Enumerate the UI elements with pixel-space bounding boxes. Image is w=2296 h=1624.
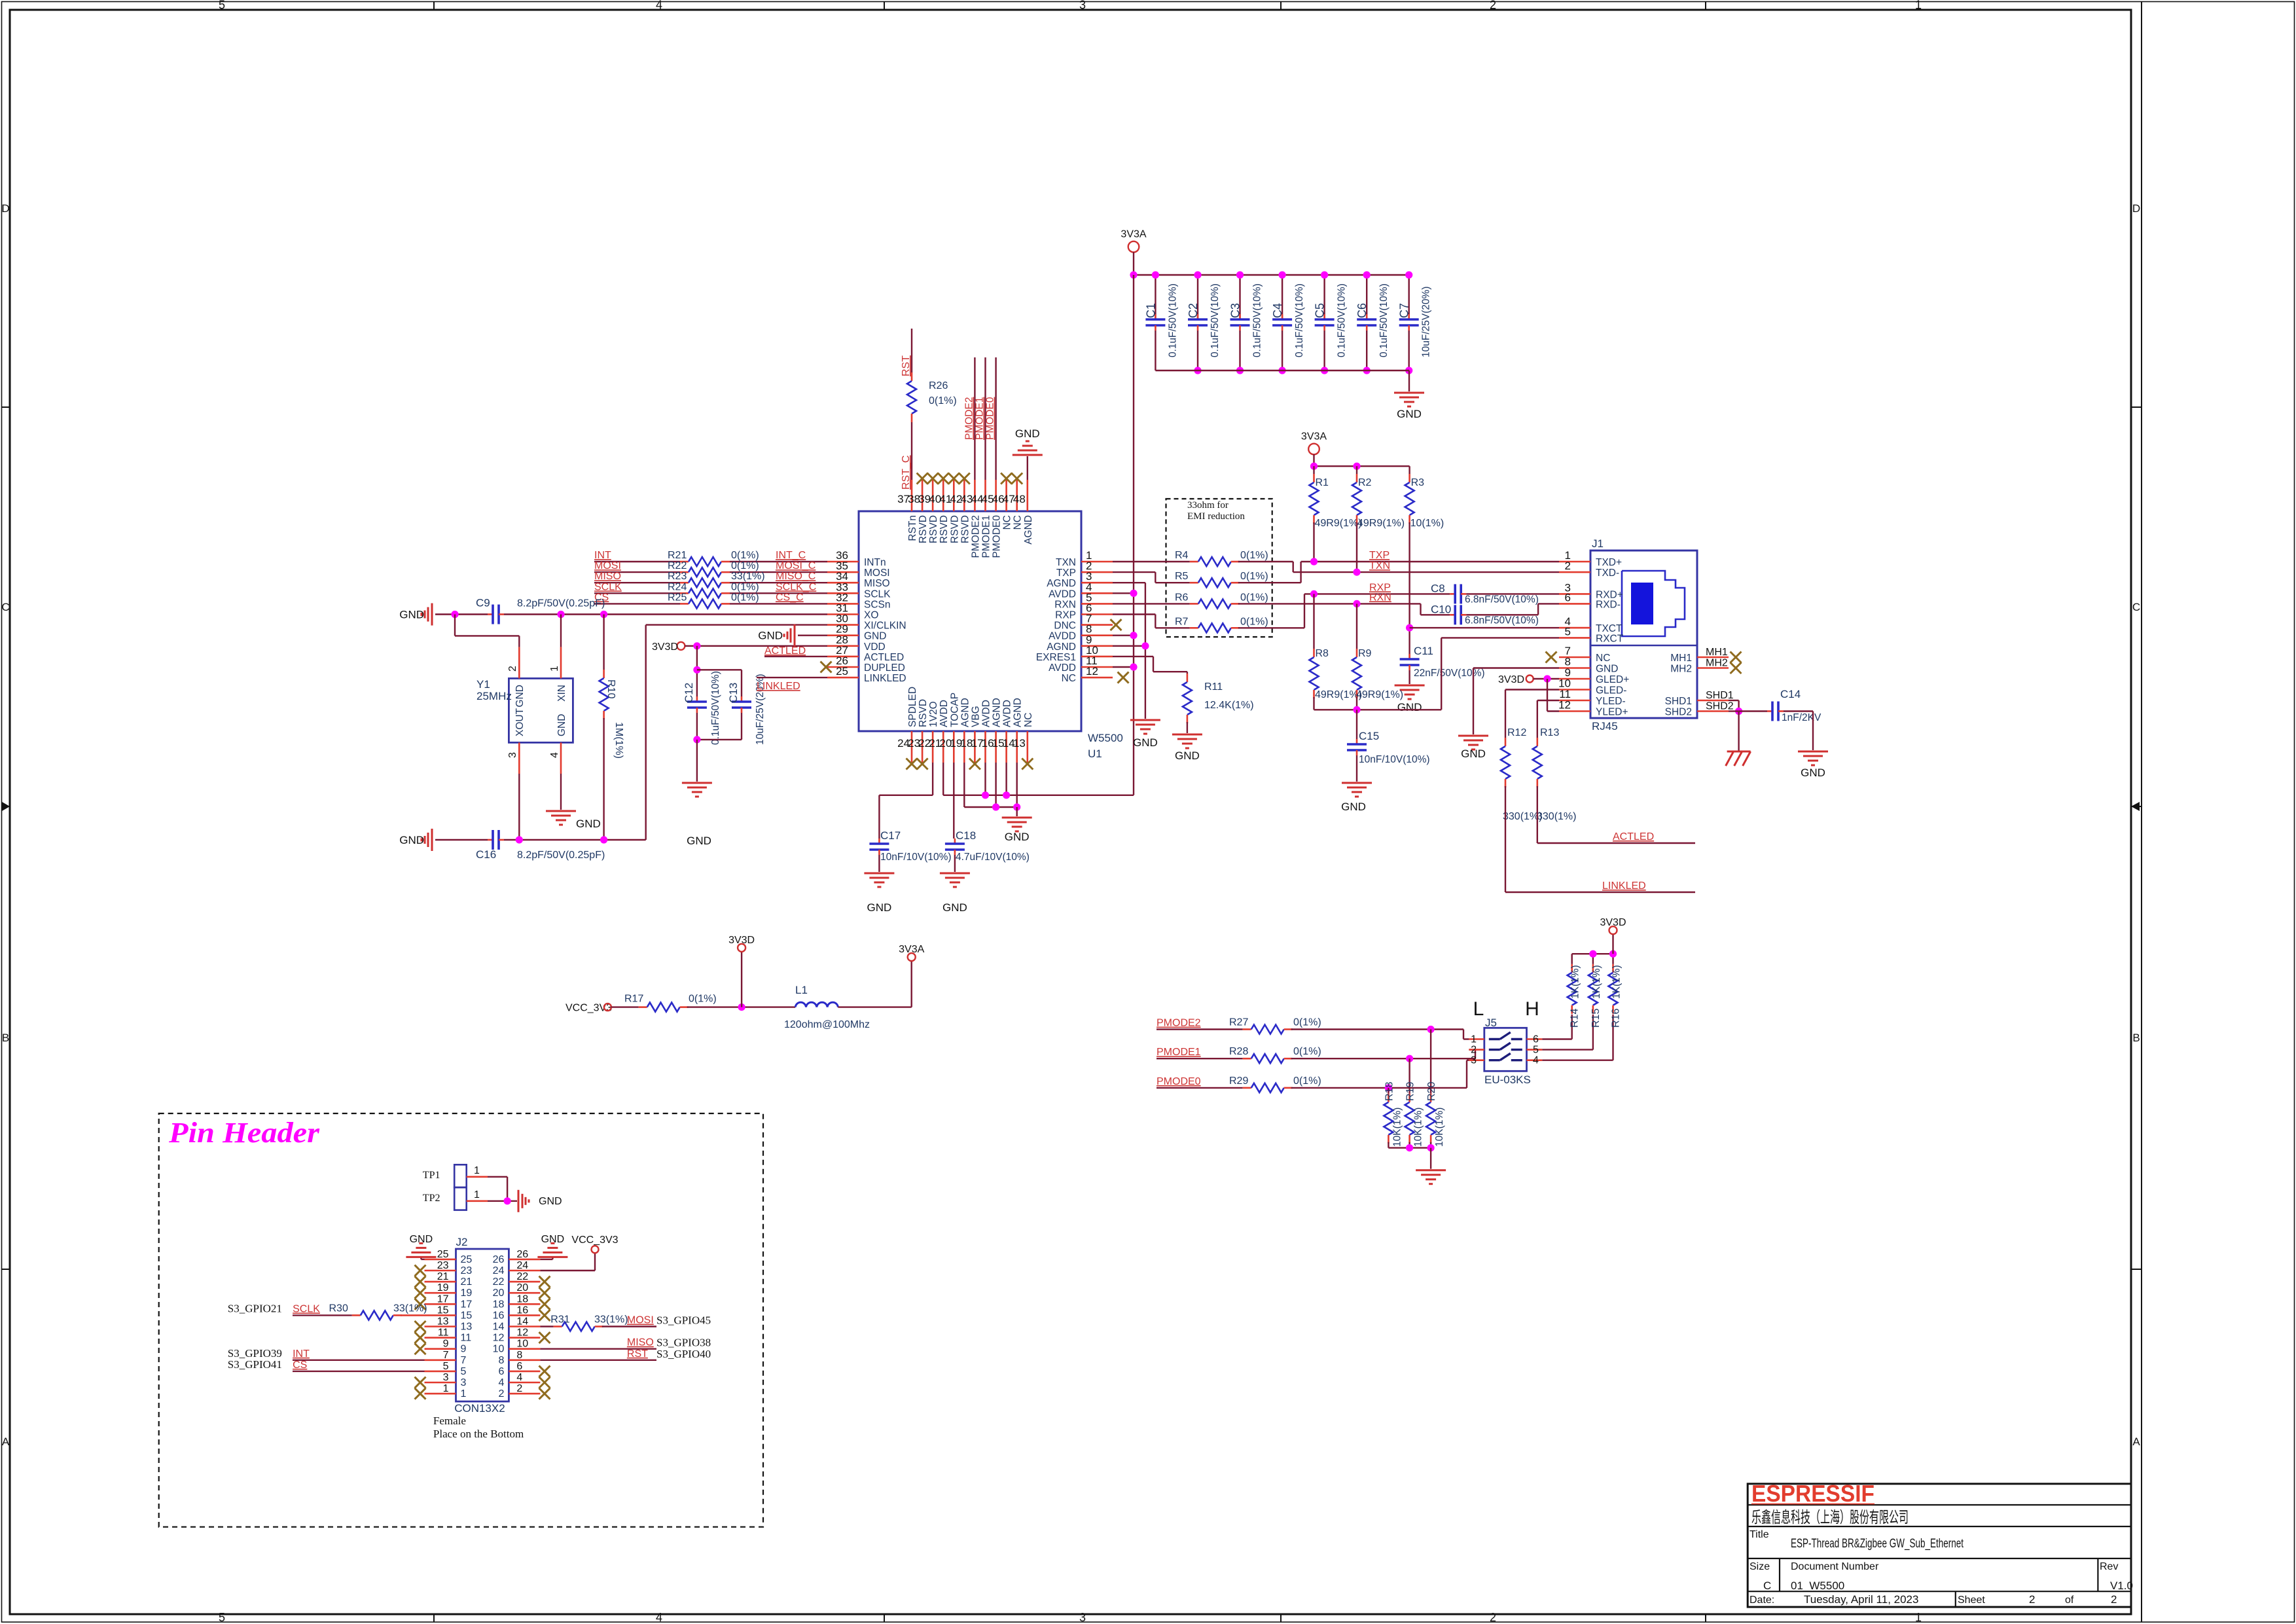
svg-text:LINKLED: LINKLED [1602,880,1646,892]
svg-text:AVDD: AVDD [1049,662,1076,674]
svg-text:GND: GND [687,835,711,847]
svg-text:2: 2 [1565,560,1571,572]
svg-text:AGND: AGND [1013,698,1024,727]
svg-text:VBG: VBG [970,706,981,727]
svg-text:120ohm@100Mhz: 120ohm@100Mhz [784,1019,870,1030]
svg-text:AGND: AGND [960,698,971,727]
svg-text:NC: NC [1013,515,1024,530]
svg-text:3V3A: 3V3A [1301,431,1327,442]
svg-text:RST: RST [627,1348,648,1360]
svg-text:XIN: XIN [556,685,567,702]
svg-text:49R9(1%): 49R9(1%) [1356,689,1403,700]
svg-text:R14: R14 [1570,1009,1581,1028]
svg-text:SCLK: SCLK [864,588,891,600]
svg-text:R4: R4 [1175,550,1189,561]
svg-text:ESP-Thread BR&Zigbee GW_Sub_Et: ESP-Thread BR&Zigbee GW_Sub_Ethernet [1791,1537,1964,1551]
svg-text:0(1%): 0(1%) [1293,1046,1321,1057]
svg-text:R21: R21 [668,550,687,561]
svg-text:Date:: Date: [1749,1595,1774,1606]
svg-text:2: 2 [498,1388,504,1399]
svg-text:GLED+: GLED+ [1596,674,1629,685]
svg-text:1nF/2KV: 1nF/2KV [1782,712,1821,723]
svg-text:48: 48 [1013,493,1026,505]
svg-text:25: 25 [461,1254,473,1265]
svg-text:RSVD: RSVD [960,515,971,543]
svg-text:10nF/10V(10%): 10nF/10V(10%) [880,852,952,863]
svg-text:0(1%): 0(1%) [1240,616,1268,627]
svg-text:GND: GND [1133,736,1158,749]
svg-text:1: 1 [461,1388,467,1399]
svg-text:AVDD: AVDD [981,700,992,727]
svg-text:XO: XO [864,610,878,621]
svg-text:RSVD: RSVD [928,515,939,543]
svg-text:R25: R25 [668,592,687,603]
svg-text:11: 11 [461,1333,472,1344]
svg-text:C7: C7 [1398,303,1411,318]
svg-text:0.1uF/50V(10%): 0.1uF/50V(10%) [1294,283,1305,357]
svg-text:U1: U1 [1088,748,1102,760]
svg-text:Title: Title [1749,1529,1769,1540]
svg-text:C4: C4 [1271,303,1284,318]
svg-text:13: 13 [437,1316,449,1327]
svg-text:25: 25 [836,665,848,677]
svg-text:S3_GPIO45: S3_GPIO45 [656,1314,711,1327]
svg-text:GND: GND [1596,664,1618,675]
svg-text:TP2: TP2 [423,1193,440,1204]
svg-text:R15: R15 [1590,1009,1602,1028]
svg-text:14: 14 [516,1316,528,1327]
svg-text:RSVD: RSVD [918,515,929,543]
svg-text:MH1: MH1 [1670,653,1692,664]
svg-text:RSVD: RSVD [939,515,950,543]
svg-text:7: 7 [443,1350,449,1361]
svg-text:乐鑫信息科技（上海）股份有限公司: 乐鑫信息科技（上海）股份有限公司 [1751,1509,1909,1526]
svg-text:C13: C13 [727,683,740,703]
svg-text:C16: C16 [476,848,496,861]
svg-text:R13: R13 [1540,727,1559,738]
svg-text:21: 21 [461,1276,473,1288]
svg-text:XI/CLKIN: XI/CLKIN [864,621,906,632]
svg-text:MOSI_C: MOSI_C [776,560,816,571]
svg-text:1K(1%): 1K(1%) [1611,965,1623,999]
svg-text:SCLK_C: SCLK_C [776,581,816,592]
svg-text:3V3A: 3V3A [899,944,924,955]
svg-text:3V3A: 3V3A [1121,229,1146,240]
svg-text:8: 8 [516,1350,522,1361]
svg-text:J5: J5 [1485,1017,1497,1029]
svg-text:13: 13 [1013,737,1026,749]
svg-text:3: 3 [461,1377,467,1388]
svg-text:INTn: INTn [864,557,886,568]
svg-text:20: 20 [493,1288,505,1299]
svg-text:NC: NC [1002,515,1013,530]
svg-text:10nF/10V(10%): 10nF/10V(10%) [1359,754,1430,765]
svg-text:24: 24 [493,1265,505,1276]
svg-text:B: B [2,1032,9,1044]
svg-text:330(1%): 330(1%) [1537,811,1576,822]
svg-text:J1: J1 [1592,537,1604,550]
svg-text:GND: GND [1005,831,1030,843]
svg-text:PMODE0: PMODE0 [1157,1076,1201,1087]
svg-text:33(1%): 33(1%) [731,571,765,582]
svg-text:INT: INT [594,550,611,561]
svg-text:ACTLED: ACTLED [864,652,904,663]
svg-text:16: 16 [516,1305,528,1316]
svg-text:R10: R10 [605,679,617,698]
svg-text:RSVD: RSVD [949,515,960,543]
svg-text:22: 22 [493,1276,505,1288]
svg-text:GND: GND [1175,749,1200,762]
svg-text:RSTn: RSTn [907,515,918,541]
svg-text:YLED-: YLED- [1596,696,1626,707]
svg-text:V1.0: V1.0 [2110,1579,2133,1592]
svg-text:C1: C1 [1144,303,1157,318]
svg-text:PMODE2: PMODE2 [963,397,975,440]
svg-text:TXD+: TXD+ [1596,557,1622,568]
svg-text:Rev: Rev [2100,1561,2118,1572]
svg-text:SCSn: SCSn [864,599,891,610]
svg-text:1V2O: 1V2O [928,701,939,727]
svg-text:5: 5 [219,0,225,12]
svg-text:4: 4 [656,1611,662,1624]
svg-text:L: L [1473,998,1484,1020]
svg-text:C6: C6 [1355,303,1369,318]
svg-text:0(1%): 0(1%) [1293,1075,1321,1087]
svg-text:4: 4 [498,1377,504,1388]
svg-text:0(1%): 0(1%) [731,592,759,603]
svg-text:1: 1 [474,1189,480,1200]
svg-text:0(1%): 0(1%) [929,395,957,406]
svg-text:0(1%): 0(1%) [1240,592,1268,603]
svg-text:17: 17 [461,1299,473,1310]
svg-text:0.1uF/50V(10%): 0.1uF/50V(10%) [1378,283,1390,357]
svg-text:RJ45: RJ45 [1592,720,1618,732]
svg-text:25: 25 [437,1249,449,1260]
svg-text:13: 13 [461,1322,473,1333]
svg-text:EU-03KS: EU-03KS [1484,1074,1531,1086]
svg-text:S3_GPIO40: S3_GPIO40 [656,1348,711,1360]
svg-text:GND: GND [541,1234,565,1245]
svg-text:Tuesday, April 11, 2023: Tuesday, April 11, 2023 [1804,1593,1918,1606]
svg-text:R29: R29 [1229,1075,1248,1087]
svg-text:AVDD: AVDD [1049,631,1076,642]
svg-text:0.1uF/50V(10%): 0.1uF/50V(10%) [1167,283,1178,357]
svg-text:6.8nF/50V(10%): 6.8nF/50V(10%) [1465,615,1539,626]
svg-text:AGND: AGND [1023,515,1034,545]
svg-text:19: 19 [461,1288,473,1299]
svg-text:SCLK: SCLK [594,581,622,592]
svg-text:MOSI: MOSI [864,568,890,579]
svg-text:C5: C5 [1314,303,1327,318]
svg-text:C11: C11 [1414,645,1433,657]
svg-text:5: 5 [1533,1045,1539,1056]
svg-text:5: 5 [443,1361,449,1372]
svg-text:RSVD: RSVD [918,699,929,727]
svg-text:2: 2 [1471,1045,1477,1056]
svg-text:7: 7 [461,1355,467,1366]
svg-text:MH2: MH2 [1670,664,1692,675]
svg-text:4: 4 [1533,1055,1539,1066]
svg-text:RXN: RXN [1054,599,1076,610]
svg-text:RST: RST [901,355,912,376]
svg-text:MOSI: MOSI [594,560,621,571]
svg-text:CS: CS [293,1360,307,1371]
svg-text:2: 2 [1490,1611,1496,1624]
svg-text:CON13X2: CON13X2 [454,1402,505,1415]
svg-text:L1: L1 [795,984,808,996]
svg-text:AVDD: AVDD [1002,700,1013,727]
svg-text:10K(1%): 10K(1%) [1434,1108,1445,1147]
svg-text:Place on the Bottom: Place on the Bottom [433,1428,524,1440]
svg-text:R22: R22 [668,560,687,571]
svg-text:12: 12 [1558,699,1571,712]
svg-text:0(1%): 0(1%) [731,560,759,571]
svg-text:22: 22 [516,1271,528,1282]
svg-text:10K(1%): 10K(1%) [1413,1108,1424,1147]
svg-text:LINKLED: LINKLED [757,681,800,692]
svg-text:AVDD: AVDD [939,700,950,727]
svg-text:3: 3 [1079,0,1086,12]
svg-text:3: 3 [507,752,518,758]
svg-text:C17: C17 [880,829,901,842]
svg-text:GND: GND [1341,801,1366,813]
svg-text:R11: R11 [1204,681,1223,693]
svg-text:R7: R7 [1175,616,1189,627]
svg-text:0(1%): 0(1%) [1240,571,1268,582]
svg-text:14: 14 [493,1322,505,1333]
svg-text:4.7uF/10V(10%): 4.7uF/10V(10%) [956,852,1030,863]
svg-text:GND: GND [556,714,567,736]
svg-text:NC: NC [1596,653,1610,664]
svg-text:23: 23 [437,1260,449,1271]
svg-text:21: 21 [437,1271,449,1282]
svg-text:26: 26 [516,1249,528,1260]
svg-text:8: 8 [498,1355,504,1366]
svg-text:33ohm for: 33ohm for [1187,500,1229,511]
svg-text:VCC_3V3: VCC_3V3 [571,1235,618,1246]
svg-text:4: 4 [656,0,662,12]
svg-text:MISO: MISO [594,571,621,582]
svg-text:R26: R26 [929,380,948,391]
svg-text:33(1%): 33(1%) [393,1303,427,1314]
svg-text:Size: Size [1749,1561,1770,1572]
svg-text:R24: R24 [668,581,687,592]
svg-text:10: 10 [493,1344,505,1355]
svg-text:Female: Female [433,1415,466,1427]
svg-text:GND: GND [576,818,601,830]
svg-text:5: 5 [219,1611,225,1624]
svg-text:GND: GND [1801,767,1825,779]
svg-text:R18: R18 [1384,1082,1395,1101]
svg-text:1M(1%): 1M(1%) [613,722,624,759]
svg-text:0(1%): 0(1%) [731,550,759,561]
svg-text:12: 12 [493,1333,505,1344]
svg-text:C: C [2132,601,2140,613]
svg-text:R31: R31 [550,1314,569,1326]
svg-text:3V3D: 3V3D [652,641,678,653]
svg-text:EMI reduction: EMI reduction [1187,511,1245,522]
svg-text:AGND: AGND [992,698,1003,727]
svg-text:XOUT: XOUT [514,708,526,736]
svg-text:GND: GND [410,1234,433,1245]
svg-text:1K(1%): 1K(1%) [1570,965,1581,999]
svg-text:RXP: RXP [1055,610,1076,621]
svg-text:C: C [1763,1579,1771,1592]
svg-text:10: 10 [516,1339,528,1350]
svg-text:NC: NC [1023,713,1034,727]
svg-text:GND: GND [1015,427,1040,440]
svg-text:3: 3 [443,1372,449,1383]
svg-text:SHD2: SHD2 [1665,707,1692,718]
svg-text:MISO: MISO [627,1337,654,1348]
svg-text:ACTLED: ACTLED [764,645,806,657]
svg-text:GLED-: GLED- [1596,685,1626,696]
svg-text:Y1: Y1 [476,678,490,691]
svg-text:R28: R28 [1229,1046,1248,1057]
svg-text:SHD1: SHD1 [1665,696,1692,707]
svg-text:TP1: TP1 [423,1170,440,1181]
svg-text:TXN: TXN [1056,557,1076,568]
svg-text:2: 2 [507,666,518,672]
svg-text:GND: GND [1397,408,1422,420]
svg-text:R30: R30 [329,1303,348,1314]
svg-text:S3_GPIO41: S3_GPIO41 [228,1358,282,1371]
svg-text:1K(1%): 1K(1%) [1591,965,1602,999]
svg-text:1: 1 [1471,1034,1477,1045]
svg-text:R20: R20 [1426,1082,1437,1101]
svg-text:NC: NC [1062,673,1076,684]
svg-text:3: 3 [1079,1611,1086,1624]
svg-text:0(1%): 0(1%) [731,581,759,592]
svg-text:VDD: VDD [864,641,886,653]
svg-text:B: B [2132,1032,2140,1044]
svg-text:49R9(1%): 49R9(1%) [1357,518,1405,529]
svg-text:19: 19 [437,1282,449,1293]
svg-text:11: 11 [438,1327,449,1339]
svg-text:33(1%): 33(1%) [594,1314,628,1326]
svg-text:6: 6 [498,1366,504,1377]
svg-text:RXD-: RXD- [1596,599,1621,610]
svg-text:0.1uF/50V(10%): 0.1uF/50V(10%) [710,671,721,745]
svg-text:0(1%): 0(1%) [1240,550,1268,561]
svg-text:GND: GND [864,631,886,642]
svg-text:1: 1 [549,666,560,672]
svg-text:4: 4 [516,1372,522,1383]
svg-text:24: 24 [516,1260,528,1271]
svg-text:9: 9 [443,1339,449,1350]
svg-text:MISO: MISO [864,578,890,589]
svg-text:12: 12 [516,1327,528,1339]
svg-text:EXRES1: EXRES1 [1036,652,1076,663]
svg-text:ACTLED: ACTLED [1613,831,1654,842]
svg-text:25MHz: 25MHz [476,690,512,702]
svg-text:A: A [2,1435,10,1448]
svg-text:R6: R6 [1175,592,1189,603]
svg-text:2: 2 [1490,0,1496,12]
svg-text:6: 6 [516,1361,522,1372]
svg-text:16: 16 [493,1310,505,1321]
svg-text:R17: R17 [624,994,643,1005]
svg-text:23: 23 [461,1265,473,1276]
svg-text:12: 12 [1086,665,1098,677]
svg-text:W5500: W5500 [1088,732,1123,744]
svg-text:INT_C: INT_C [776,550,806,561]
svg-text:10(1%): 10(1%) [1410,518,1444,529]
svg-text:0.1uF/50V(10%): 0.1uF/50V(10%) [1210,283,1221,357]
svg-text:TXN: TXN [1369,560,1390,571]
svg-text:R2: R2 [1358,477,1372,488]
svg-text:Document Number: Document Number [1791,1561,1879,1572]
svg-text:15: 15 [461,1310,473,1321]
svg-text:3V3D: 3V3D [1498,674,1524,685]
svg-text:8.2pF/50V(0.25pF): 8.2pF/50V(0.25pF) [517,598,605,609]
svg-text:PMODE2: PMODE2 [1157,1018,1201,1029]
svg-text:5: 5 [461,1366,467,1377]
svg-text:1: 1 [474,1165,480,1176]
svg-text:4: 4 [549,752,560,758]
svg-text:PMODE0: PMODE0 [992,515,1003,558]
svg-text:AGND: AGND [1047,641,1076,653]
svg-text:GND: GND [1397,701,1422,713]
svg-text:AVDD: AVDD [1049,588,1076,600]
svg-text:S3_GPIO21: S3_GPIO21 [228,1302,282,1314]
svg-text:ESPRESSIF: ESPRESSIF [1751,1480,1874,1507]
svg-text:GND: GND [399,609,424,621]
svg-text:10uF/25V(20%): 10uF/25V(20%) [1421,286,1432,357]
svg-text:RXN: RXN [1369,592,1391,603]
svg-text:GND: GND [399,834,424,846]
svg-text:LINKLED: LINKLED [864,673,906,684]
svg-text:R1: R1 [1316,477,1329,488]
svg-text:TXP: TXP [1056,568,1076,579]
svg-text:Sheet: Sheet [1958,1595,1985,1606]
svg-text:R27: R27 [1229,1017,1248,1028]
svg-text:RST_C: RST_C [901,456,912,490]
svg-text:of: of [2065,1595,2074,1606]
svg-text:PMODE0: PMODE0 [985,397,996,440]
svg-text:3V3D: 3V3D [1600,917,1626,928]
svg-text:D: D [2132,202,2140,215]
svg-text:22nF/50V(10%): 22nF/50V(10%) [1414,668,1485,679]
svg-text:2: 2 [2111,1593,2117,1606]
svg-text:9: 9 [461,1344,467,1355]
svg-text:3V3D: 3V3D [728,935,755,946]
svg-text:GND: GND [867,901,892,914]
svg-text:6.8nF/50V(10%): 6.8nF/50V(10%) [1465,594,1539,605]
svg-text:AGND: AGND [1047,578,1076,589]
svg-text:RXCT: RXCT [1596,633,1624,644]
svg-text:C: C [1,601,9,613]
svg-text:R8: R8 [1316,648,1329,659]
svg-text:8.2pF/50V(0.25pF): 8.2pF/50V(0.25pF) [517,850,605,861]
svg-text:PMODE2: PMODE2 [970,515,981,558]
svg-text:C14: C14 [1780,688,1801,700]
svg-text:GND: GND [514,685,526,707]
svg-text:CS_C: CS_C [776,592,804,603]
svg-text:C15: C15 [1359,730,1379,742]
svg-text:GND: GND [758,630,783,642]
svg-text:R5: R5 [1175,571,1189,582]
svg-text:J2: J2 [456,1236,468,1248]
svg-text:C3: C3 [1229,303,1242,318]
svg-text:DUPLED: DUPLED [864,662,905,674]
svg-text:H: H [1525,998,1539,1020]
svg-text:17: 17 [437,1293,449,1305]
svg-text:D: D [1,202,9,215]
svg-text:SHD1: SHD1 [1706,690,1734,701]
svg-text:2: 2 [2029,1593,2035,1606]
svg-text:20: 20 [516,1282,528,1293]
